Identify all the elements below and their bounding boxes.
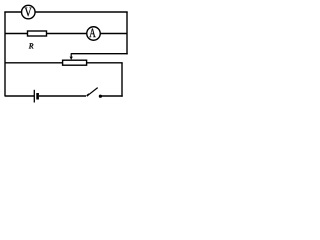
switch S (open) (86, 88, 102, 98)
wire: right inner rail (121, 63, 123, 97)
wire: top row right segment (35, 11, 128, 13)
ammeter A (87, 27, 101, 41)
voltmeter V (22, 5, 36, 19)
wire: left rail (4, 12, 6, 97)
wire: rheostat row left segment (5, 62, 63, 64)
battery cell (34, 90, 37, 103)
wire: row2 left segment (5, 33, 28, 35)
rheostat body (63, 60, 87, 65)
wire: row2 right segment (101, 33, 127, 35)
resistor R (28, 31, 47, 36)
wire: row2 middle segment (47, 33, 87, 35)
wire: right outer rail (126, 12, 128, 54)
label R (29, 43, 34, 48)
background (0, 0, 132, 109)
wire: bottom row middle segment (39, 95, 86, 97)
wire: slider tap horizontal (71, 53, 128, 55)
wire: bottom row left segment (5, 95, 34, 97)
rheostat slider arrow (70, 53, 73, 60)
wire: bottom row right segment (102, 95, 123, 97)
wire: rheostat row right segment (87, 62, 123, 64)
wire: top row left segment (4, 11, 21, 13)
